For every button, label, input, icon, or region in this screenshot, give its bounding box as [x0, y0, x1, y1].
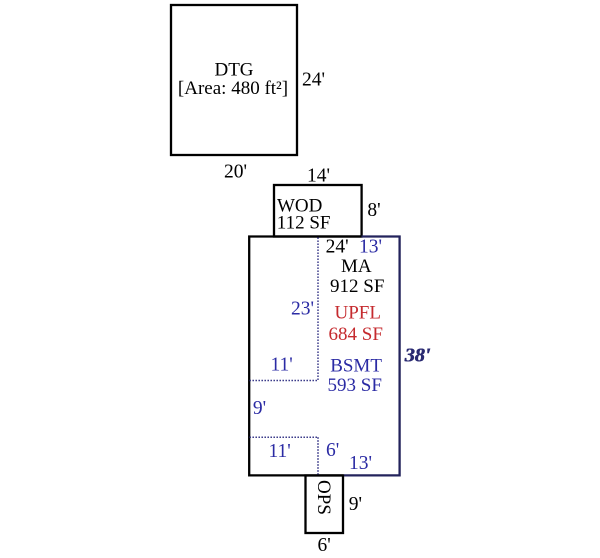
basement dotted line: horizontal upper (11') — [250, 380, 319, 382]
detached garage DTG outline — [171, 5, 297, 155]
basement dotted line: vertical lower (6') — [317, 437, 319, 475]
svg-text:684 SF: 684 SF — [329, 324, 383, 345]
svg-text:912 SF: 912 SF — [330, 276, 384, 297]
basement dotted line: vertical upper — [317, 238, 319, 381]
svg-text:OPS: OPS — [313, 480, 334, 515]
svg-text:BSMT: BSMT — [330, 356, 382, 377]
svg-text:9': 9' — [349, 494, 362, 515]
svg-text:14': 14' — [307, 166, 330, 187]
svg-text:24': 24' — [302, 70, 325, 91]
svg-text:13': 13' — [349, 453, 372, 474]
basement dotted line: horizontal lower (11') — [250, 436, 319, 438]
wood deck WOD outline — [274, 185, 362, 237]
svg-text:8': 8' — [367, 200, 380, 221]
svg-text:6': 6' — [318, 535, 331, 556]
svg-text:11': 11' — [271, 355, 293, 376]
svg-text:593 SF: 593 SF — [328, 375, 382, 396]
svg-text:112 SF: 112 SF — [277, 213, 331, 234]
svg-text:UPFL: UPFL — [335, 303, 381, 324]
basement wall overlay (navy): top-right, right, bottom-right — [343, 237, 400, 476]
svg-text:6': 6' — [326, 440, 339, 461]
open porch OPS outline — [306, 476, 344, 534]
svg-text:13': 13' — [359, 237, 382, 258]
main area MA outline (black walls) — [249, 237, 361, 476]
svg-text:24': 24' — [326, 237, 349, 258]
svg-text:9': 9' — [253, 398, 266, 419]
svg-text:MA: MA — [341, 256, 372, 277]
svg-text:20': 20' — [224, 162, 247, 183]
svg-text:23': 23' — [291, 299, 314, 320]
svg-text:[Area: 480 ft²]: [Area: 480 ft²] — [178, 78, 288, 99]
svg-text:38': 38' — [404, 345, 431, 367]
svg-text:11': 11' — [269, 441, 291, 462]
